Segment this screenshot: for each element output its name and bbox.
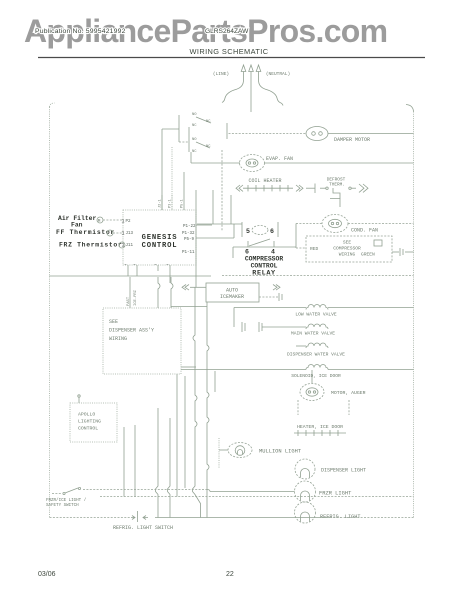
- svg-text:P1-22: P1-22: [183, 225, 196, 229]
- svg-text:COND. FAN: COND. FAN: [351, 228, 378, 234]
- svg-text:AUTO: AUTO: [226, 288, 238, 294]
- svg-text:GENESIS: GENESIS: [142, 234, 178, 242]
- svg-text:P1-32: P1-32: [182, 232, 195, 236]
- svg-text:CONTROL: CONTROL: [78, 426, 98, 432]
- svg-text:WIRING: WIRING: [339, 252, 356, 258]
- svg-text:1: 1: [122, 231, 125, 237]
- svg-text:Fan: Fan: [71, 222, 83, 229]
- svg-text:(NEUTRAL): (NEUTRAL): [266, 71, 290, 77]
- svg-text:ICE-FRZ: ICE-FRZ: [134, 289, 138, 306]
- svg-text:ICEMAKER: ICEMAKER: [220, 294, 244, 300]
- svg-text:5: 5: [246, 228, 250, 235]
- svg-text:J13: J13: [126, 232, 134, 236]
- svg-text:DISPENSER LIGHT: DISPENSER LIGHT: [321, 468, 366, 474]
- svg-text:FRZR LIGHT: FRZR LIGHT: [319, 491, 352, 497]
- svg-text:COMPRESSOR: COMPRESSOR: [245, 256, 284, 263]
- svg-text:~: ~: [124, 263, 127, 268]
- svg-text:DAMPER MOTOR: DAMPER MOTOR: [334, 137, 370, 143]
- svg-text:P1-11: P1-11: [182, 251, 195, 255]
- svg-text:FF Thermistor: FF Thermistor: [56, 229, 115, 236]
- svg-text:WIRING: WIRING: [109, 336, 127, 342]
- svg-text:J11: J11: [126, 244, 134, 248]
- svg-text:NC: NC: [206, 145, 211, 149]
- svg-text:NC: NC: [192, 124, 197, 128]
- svg-text:P2: P2: [126, 220, 132, 224]
- svg-text:RELAY: RELAY: [252, 270, 276, 278]
- svg-text:SEE: SEE: [343, 240, 352, 246]
- svg-text:HEATER, ICE DOOR: HEATER, ICE DOOR: [297, 424, 343, 430]
- svg-text:~: ~: [133, 263, 136, 268]
- svg-text:GLRS264ZAW: GLRS264ZAW: [205, 28, 249, 35]
- svg-text:NO: NO: [192, 113, 197, 117]
- svg-text:6: 6: [245, 249, 249, 256]
- svg-text:CONTROL: CONTROL: [251, 263, 278, 270]
- svg-text:SAFETY SWITCH: SAFETY SWITCH: [46, 504, 79, 508]
- svg-text:MOTOR, AUGER: MOTOR, AUGER: [331, 390, 366, 396]
- svg-text:22: 22: [226, 571, 234, 578]
- svg-text:LOW WATER VALVE: LOW WATER VALVE: [295, 312, 337, 318]
- svg-text:M: M: [98, 219, 101, 224]
- svg-text:P5-1: P5-1: [181, 199, 185, 208]
- svg-text:J2-1: J2-1: [159, 199, 163, 208]
- svg-text:GREEN: GREEN: [361, 252, 375, 258]
- svg-text:1: 1: [122, 219, 125, 225]
- svg-text:DISPENSER WATER VALVE: DISPENSER WATER VALVE: [287, 352, 345, 358]
- svg-text:REFRIG. LIGHT SWITCH: REFRIG. LIGHT SWITCH: [113, 525, 173, 531]
- svg-text:~: ~: [154, 263, 157, 268]
- svg-text:4: 4: [271, 249, 275, 256]
- svg-text:FRZR/ICE LIGHT /: FRZR/ICE LIGHT /: [46, 498, 87, 503]
- svg-text:WIRING SCHEMATIC: WIRING SCHEMATIC: [190, 47, 269, 56]
- svg-text:RED: RED: [310, 246, 319, 252]
- svg-text:APOLLO: APOLLO: [78, 412, 95, 418]
- svg-text:SEE: SEE: [109, 319, 118, 325]
- svg-text:MULLION LIGHT: MULLION LIGHT: [259, 449, 302, 455]
- svg-text:P5-9: P5-9: [184, 238, 195, 242]
- svg-text:FRZ Thermistor: FRZ Thermistor: [59, 242, 123, 249]
- svg-text:SOLENOID, ICE DOOR: SOLENOID, ICE DOOR: [291, 373, 341, 379]
- svg-text:NC: NC: [206, 120, 211, 124]
- svg-text:LIGHTING: LIGHTING: [78, 419, 101, 425]
- svg-text:Publication No. 5995421992: Publication No. 5995421992: [35, 28, 126, 35]
- svg-text:6: 6: [270, 228, 274, 235]
- svg-text:EVAP. FAN: EVAP. FAN: [266, 156, 293, 162]
- svg-text:REFRIG. LIGHT: REFRIG. LIGHT: [320, 514, 360, 520]
- svg-text:1: 1: [122, 243, 125, 249]
- svg-text:NO: NO: [192, 138, 197, 142]
- svg-text:MAIN WATER VALVE: MAIN WATER VALVE: [291, 331, 335, 337]
- svg-text:NC: NC: [192, 150, 197, 154]
- svg-text:~: ~: [166, 263, 169, 268]
- svg-text:(LINE): (LINE): [213, 71, 229, 77]
- svg-text:COMPRESSOR: COMPRESSOR: [333, 246, 361, 252]
- svg-text:CONTROL: CONTROL: [142, 242, 178, 250]
- svg-text:P3-1: P3-1: [169, 199, 173, 208]
- svg-text:03/06: 03/06: [38, 571, 56, 578]
- svg-text:THERM.: THERM.: [329, 183, 345, 188]
- svg-text:DISPENSER ASS'Y: DISPENSER ASS'Y: [109, 328, 154, 334]
- svg-text:COIL HEATER: COIL HEATER: [248, 178, 281, 184]
